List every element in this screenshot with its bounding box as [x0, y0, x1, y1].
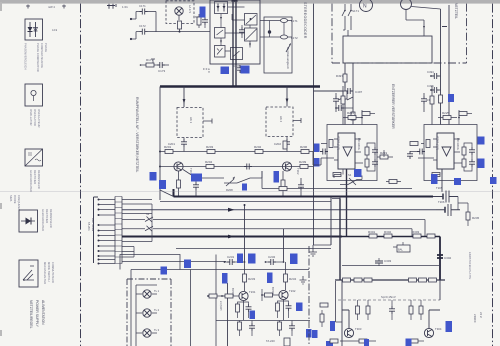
right head feed wire with arrow [286, 87, 289, 107]
speaker lamp dash-dot box [127, 279, 171, 346]
svg-text:S171: S171 [352, 9, 359, 13]
supply rail right pair x=440,449 [441, 5, 450, 125]
svg-text:C303: C303 [384, 259, 392, 263]
blue label C231 [248, 254, 256, 264]
junction dot x160 y166 [159, 166, 161, 168]
blue label C181 [221, 67, 230, 75]
cap to ground at x313 [309, 245, 331, 256]
input terminal node 1 [130, 12, 140, 21]
IC2 right ladder r2 [460, 159, 475, 171]
resistor R201 [164, 145, 173, 154]
svg-text:MECHSCHALTER: MECHSCHALTER [43, 262, 47, 284]
svg-text:1 01: 1 01 [122, 5, 128, 9]
IC1 body [337, 133, 362, 169]
supply jog to IC1 [338, 97, 353, 100]
IC1 top resistor R215 [343, 111, 362, 120]
hanging cap C495 [427, 84, 441, 93]
IC2 right ladder r1 [462, 143, 475, 159]
legend box phase comparator diodes [25, 19, 43, 40]
medium vertical from jog x=340 [339, 199, 341, 281]
T232 collector resistor [284, 262, 297, 290]
IC2 feedback enclosure [424, 125, 477, 181]
preamp cap C231 [224, 255, 246, 265]
blue label at IC1 left lower [314, 158, 320, 167]
left stage cap C204 [193, 178, 199, 197]
scanner gray tick left edge lower [0, 330, 2, 336]
rail resistor R494 [426, 95, 442, 103]
blue label bus right [237, 254, 243, 264]
bus fan bracket vertical [134, 204, 152, 257]
svg-text:TA 240: TA 240 [266, 339, 275, 343]
svg-text:R203: R203 [206, 145, 214, 149]
svg-text:COMPARATEUR DE: COMPARATEUR DE [40, 43, 44, 68]
svg-text:Sp=0,15mV: Sp=0,15mV [381, 295, 396, 299]
vertical resistor R207 [283, 141, 287, 149]
blue label R231 [222, 273, 228, 284]
cap C303 under rail [375, 258, 392, 266]
trimmer between channels [224, 177, 237, 193]
blue label C204h [191, 174, 202, 182]
svg-text:Oszillatorabgleich: Oszillatorabgleich [286, 47, 290, 70]
IC1 feedback enclosure [327, 125, 377, 181]
hanging cap C494 [427, 70, 441, 79]
IC2 output wire down [441, 169, 443, 192]
bus line 1 short [122, 199, 152, 201]
IC2 body [436, 133, 461, 169]
FET switch upper right [433, 186, 458, 203]
blue label R232 [267, 273, 273, 284]
legend box relay switch [19, 260, 38, 287]
preamp transistor T232 [271, 287, 296, 300]
svg-text:C494: C494 [427, 70, 434, 74]
svg-text:R201: R201 [164, 145, 172, 149]
resistor row y=236: R304 [427, 234, 435, 238]
T231 collector resistor [243, 262, 256, 291]
svg-text:IC201 (2/2): IC201 (2/2) [436, 136, 440, 150]
bus line 4 short [122, 213, 152, 215]
internal junction arrows [220, 17, 251, 46]
blue label C201h [150, 172, 157, 181]
blue label right margin y=177 [490, 177, 497, 184]
bus fan-out lines lower [122, 242, 226, 262]
mains transformer circle [401, 0, 412, 10]
mid horizontal y=265.5 [342, 265, 440, 267]
resistor R206 [276, 145, 313, 154]
RC cluster R173 C173 [140, 58, 169, 73]
left head pin stub [203, 119, 212, 124]
blue label near FET [454, 178, 461, 185]
multiplier block [245, 14, 258, 26]
section border: netzteil left boundary x=466.5 [466, 4, 468, 63]
stereodecoder IC outline [210, 0, 260, 64]
netzteil block box [343, 36, 432, 63]
bus line y=209.75 long [122, 209, 436, 211]
zener text right [473, 312, 483, 323]
netzteil connection arrow [423, 26, 425, 29]
svg-text:NETZTEIL/REGEL: NETZTEIL/REGEL [29, 300, 33, 329]
svg-text:R209: R209 [299, 160, 307, 164]
svg-text:LA 171: LA 171 [188, 5, 192, 14]
connector pin dots [98, 199, 100, 265]
svg-text:ENDSTUFEN-PLATTE: ENDSTUFEN-PLATTE [468, 252, 472, 279]
right bias resistor R202 [254, 145, 263, 154]
svg-text:RECTIFIER: RECTIFIER [45, 209, 49, 223]
svg-text:N: N [363, 4, 367, 10]
capacitor C172 [139, 24, 148, 35]
blue label IC171 [200, 7, 206, 18]
IC2 bottom resistor R228 [432, 169, 442, 178]
IC1 input coupling parts [320, 140, 333, 155]
IC1 right ladder r2 [361, 159, 378, 171]
IC2 input coupling parts [417, 140, 430, 155]
right head dashed box [266, 107, 293, 137]
resistor R209 [299, 160, 308, 169]
svg-text:R225: R225 [442, 111, 450, 115]
netzteil motor M171 [360, 0, 373, 12]
svg-text:R173: R173 [146, 58, 154, 62]
main vertical wire x=313 [314, 4, 344, 245]
svg-text:MODE SWITCH: MODE SWITCH [47, 262, 51, 281]
junction dot [179, 31, 181, 33]
svg-text:R202: R202 [254, 145, 262, 149]
blue label bottom rail right [406, 339, 412, 346]
resistor row y=236: R301 [368, 230, 377, 238]
bus line 2 short [122, 203, 152, 205]
preamp transistor T231 [231, 288, 256, 301]
tape source switch right [340, 173, 362, 185]
svg-text:R301: R301 [368, 230, 376, 234]
supply cap C497 [345, 88, 363, 94]
svg-text:L171: L171 [291, 19, 298, 23]
wire horizontal y=31.6 [148, 31, 211, 33]
svg-text:C178: C178 [233, 64, 241, 68]
legend box rectifier ac/dc [25, 149, 43, 166]
section border: main vertical dash-dot at x=80 [80, 4, 82, 346]
vertical wire x=160 [159, 87, 161, 201]
output transistor T303 [344, 327, 361, 338]
T303 network resistor 2 [366, 300, 370, 320]
thick audio line y=196.5 [174, 189, 434, 197]
svg-text:4.19: 4.19 [52, 28, 58, 32]
internal decoder wires [221, 7, 250, 66]
thick bus line B y=236.5 [122, 236, 342, 238]
svg-text:R303: R303 [412, 230, 420, 234]
left head feed wire with arrow [183, 87, 186, 108]
right emitter row [276, 166, 313, 168]
output transistor T304 [424, 327, 441, 338]
input terminal node 2 [130, 32, 140, 41]
electrolytic cap blob on x440 [437, 255, 452, 260]
rail resistor RL2 [354, 278, 362, 282]
svg-text:C172: C172 [139, 24, 146, 28]
rail hanging cap C496 [335, 105, 353, 111]
rail resistor R499 [351, 112, 355, 120]
IC1 right resistor R219 [377, 150, 393, 159]
svg-text:OSCILLATEUR: OSCILLATEUR [37, 109, 41, 128]
left bias row y=151.5 [160, 151, 276, 153]
right head pin stub [293, 118, 301, 123]
rail resistor RR2 [419, 278, 427, 282]
panel lamp TL3 [136, 328, 160, 337]
svg-text:TL 2: TL 2 [154, 308, 160, 312]
oscillator coil L2 [281, 35, 299, 40]
svg-text:R219: R219 [380, 151, 388, 155]
emitter row y=166.5 [160, 166, 276, 168]
T304 base network resistor [409, 300, 413, 320]
left head coupling cap C201 [168, 138, 187, 152]
T231 collector feed from bus [244, 205, 246, 262]
svg-text:TL 3: TL 3 [154, 328, 160, 332]
svg-text:SIEB-: SIEB- [9, 195, 13, 202]
svg-text:NETZTEIL: NETZTEIL [454, 3, 458, 19]
section border: right vertical dash-dot at x=492 [492, 4, 494, 346]
rail resistor RR3 [429, 278, 437, 282]
supply resistor R497 [336, 74, 347, 88]
section border: stereodecoder right boundary x=332 [331, 4, 333, 63]
legend box oscillator [25, 84, 43, 106]
IC1 left input network wires [313, 144, 334, 166]
blue label bottom rail left [364, 339, 369, 346]
bus arrow on line y=209.75 [228, 208, 235, 212]
svg-text:HK 2: HK 2 [279, 116, 283, 123]
trimmer arrow oszillatorabgleich [286, 43, 291, 70]
cluster left of decoder [197, 14, 208, 28]
varicap diode dot [268, 30, 271, 33]
T303 base network resistor [356, 300, 360, 320]
blue label C206h [274, 171, 280, 183]
T231 base resistor [221, 294, 239, 298]
svg-text:T232: T232 [289, 289, 296, 293]
right stage emitter resistor R210 [281, 171, 285, 197]
svg-text:C232: C232 [268, 255, 276, 259]
resistor R171 [178, 15, 182, 31]
section border: horizontal dash-dot y=63 [332, 62, 467, 64]
blue label bottom edge left of T303 [326, 341, 333, 346]
resistor right of S4 [386, 180, 401, 184]
scan fold line [0, 191, 500, 193]
balance pot box [393, 242, 410, 252]
bottom components row left [238, 321, 256, 337]
oscillator enclosure [264, 17, 292, 73]
cap pair C186 [239, 25, 245, 38]
blue label C202h [159, 180, 166, 189]
svg-text:2-0,5CH: 2-0,5CH [219, 301, 222, 311]
preamp ground line y=320 [216, 320, 310, 322]
bottom components row right [278, 321, 296, 337]
preamp cap C232 [265, 255, 285, 265]
IC2 top resistor R226 [458, 110, 472, 125]
svg-text:C497: C497 [355, 90, 363, 94]
svg-text:C171: C171 [139, 4, 146, 8]
svg-text:mW 4: mW 4 [48, 5, 55, 9]
svg-text:S2: S2 [146, 212, 150, 216]
panel lamp TL2 [136, 308, 160, 317]
blue label right of bus top [242, 184, 247, 191]
svg-text:T304: T304 [435, 327, 442, 331]
blue label under T232 [296, 303, 303, 312]
top margin tick mark 1 [26, 5, 30, 9]
svg-text:PHASE: PHASE [44, 43, 48, 52]
svg-text:OSCILLATOR: OSCILLATOR [33, 109, 37, 126]
resistor R204 [205, 160, 214, 169]
svg-text:FREQUENZ: FREQUENZ [17, 195, 21, 210]
svg-text:C231: C231 [227, 255, 235, 259]
wire joining caps [155, 12, 157, 32]
svg-text:T206: T206 [438, 200, 445, 204]
svg-text:REDRESSEUR: REDRESSEUR [37, 170, 41, 189]
blue label lamp feed [161, 267, 168, 275]
dial lamp LA171 [175, 5, 199, 19]
IC2 pin stubs [433, 139, 460, 163]
svg-text:BAL: BAL [398, 248, 403, 252]
top margin mark 3 [107, 4, 116, 9]
svg-text:MC1303L: MC1303L [456, 138, 460, 151]
power switch contacts [342, 4, 359, 22]
blue label below IC2 [431, 174, 438, 184]
wire transistor to trimmer [183, 170, 262, 184]
vertical x=331 from 196.5 to 245 [330, 197, 332, 246]
output stage rail y=280 [335, 279, 445, 281]
blue label right of IC2 upper [478, 137, 485, 145]
divider block [245, 28, 258, 41]
T304 vertical wire [429, 280, 440, 329]
svg-text:IC201 (1/2): IC201 (1/2) [337, 136, 341, 150]
connector bracket [94, 197, 99, 263]
transistor T201 [174, 162, 193, 175]
svg-text:GLEICHRICHTER: GLEICHRICHTER [29, 170, 33, 192]
T231 emitter network [236, 301, 252, 321]
FET switch lower right [436, 200, 460, 216]
section divider dash-dot x=309 [308, 246, 310, 346]
svg-text:TA 201: TA 201 [87, 222, 91, 231]
wire transformer to right rail [412, 7, 441, 10]
svg-text:RECTIFIER: RECTIFIER [33, 170, 37, 184]
T231 base feed vertical [227, 283, 229, 346]
blue label right rail [448, 94, 454, 102]
svg-text:T303: T303 [355, 327, 362, 331]
connector jog on thick line [332, 197, 340, 199]
cap C203 [244, 164, 252, 170]
svg-text:ALIMENTATION: ALIMENTATION [41, 300, 45, 325]
ground cap x=303 [300, 276, 307, 284]
svg-text:R233: R233 [248, 277, 256, 281]
top margin tick mark 2 [62, 5, 66, 9]
svg-text:T202: T202 [296, 168, 300, 175]
svg-text:R245: R245 [472, 216, 480, 220]
oscillator wires [260, 21, 292, 38]
blue label right of IC2 lower [478, 159, 485, 169]
IC1 pin stubs [334, 139, 361, 163]
blue label under T231 [250, 311, 256, 320]
capacitor C171 [139, 4, 156, 15]
svg-text:DIODE: DIODE [13, 195, 17, 204]
IC1 top resistor R216 [361, 110, 375, 125]
T303 vertical wire [342, 280, 349, 346]
rail resistor RL1 [343, 278, 351, 282]
svg-text:C202: C202 [274, 142, 282, 146]
svg-text:REDRESSEUR: REDRESSEUR [49, 209, 53, 228]
connector pin box column [115, 197, 122, 264]
blue label C182 [241, 66, 250, 74]
resistor row y=236: R303 [412, 230, 421, 238]
svg-text:STEREODECODER: STEREODECODER [303, 2, 307, 39]
wires FET to right column [458, 197, 468, 213]
blue label below IC1 [354, 169, 362, 177]
blue label above lamp box [184, 260, 191, 269]
blue label left edge endstufe [330, 321, 335, 331]
resistor R203 [206, 145, 215, 154]
corner down from S3 line [411, 229, 413, 237]
svg-text:OSZILLATOR: OSZILLATOR [29, 109, 33, 126]
svg-text:COMMUTATEUR: COMMUTATEUR [51, 262, 55, 283]
T304 network resistor 2 [419, 300, 423, 320]
thick rail y=236 from x342 to x440 [342, 236, 440, 238]
right of divider resistor column [320, 303, 328, 327]
rail resistor RR1 [409, 278, 417, 282]
IC2 left input wires [410, 144, 434, 159]
T232 emitter network [276, 300, 292, 321]
emitter resistors bottom right pair [410, 339, 424, 343]
resistor on y=188 line [279, 187, 287, 191]
svg-text:PHASE COMPARATOR: PHASE COMPARATOR [36, 43, 40, 72]
dashed stub near decoder bottom [203, 69, 209, 73]
bus arrow on line B [228, 235, 235, 239]
IC1 bottom resistor R218 [333, 169, 343, 178]
svg-text:C495: C495 [427, 84, 434, 88]
left head dashed box [177, 108, 203, 138]
thick vertical x=440 down to 280 [439, 237, 441, 281]
svg-text:R204: R204 [205, 160, 213, 164]
mid cap pair endstufe [389, 300, 395, 320]
svg-text:R215: R215 [347, 111, 355, 115]
svg-text:S4: S4 [348, 173, 352, 177]
svg-text:C173: C173 [158, 69, 166, 73]
wire below speaker blue label [190, 270, 192, 346]
IC1 right ladder r1 [365, 143, 378, 159]
netzteil wires from switch to box [343, 10, 424, 37]
right region line y=188 [262, 171, 412, 189]
blue label at IC1 left upper [314, 144, 320, 153]
blue label C232 [290, 254, 298, 265]
scanner gray top edge [0, 0, 500, 4]
right head coupling cap C202 [274, 137, 290, 152]
blue label near T304 [446, 321, 453, 332]
decoder switch block b6 [231, 48, 243, 60]
T232 collector feed from bus [283, 229, 285, 262]
svg-text:zum Tonteil: zum Tonteil [91, 218, 95, 231]
corner down from S2 line [424, 220, 426, 237]
wire x=262 vertical [261, 289, 263, 301]
svg-text:RUMPFANSTELL.NF - VERSTÄRKER,N: RUMPFANSTELL.NF - VERSTÄRKER,NETZTEIL [135, 97, 139, 172]
connector pins [98, 200, 115, 264]
lamp bracket inner [136, 285, 157, 346]
IC2 supply caps top [421, 86, 434, 125]
preamp supply line y=248.5 [176, 248, 331, 250]
blue label bottom center 1 [306, 329, 312, 338]
bottom small box [284, 338, 290, 346]
right stage cap C206 [298, 178, 304, 197]
svg-text:T231: T231 [249, 290, 256, 294]
IC1 output wire down [346, 169, 348, 237]
svg-text:24 V: 24 V [479, 312, 483, 318]
lamp feed wire [131, 270, 309, 346]
svg-text:R302: R302 [384, 230, 392, 234]
svg-text:L172: L172 [291, 36, 298, 40]
svg-text:R234: R234 [289, 277, 297, 281]
svg-text:MC1303L: MC1303L [357, 138, 361, 151]
T232 base resistor [261, 293, 279, 297]
left branch wire endstufe [336, 281, 343, 322]
